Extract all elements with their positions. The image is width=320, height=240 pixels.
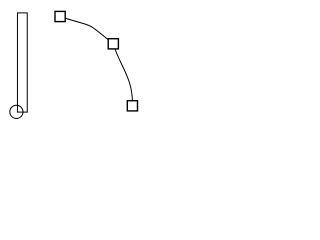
curve segment 2 [113, 44, 132, 106]
handle square 2 [108, 39, 118, 49]
circle at rectangle bottom-left corner [10, 105, 23, 118]
handle square 3 [127, 101, 137, 111]
tall thin rectangle [17, 13, 27, 112]
handle square 1 [55, 11, 65, 21]
curve segment 1 [60, 17, 113, 44]
